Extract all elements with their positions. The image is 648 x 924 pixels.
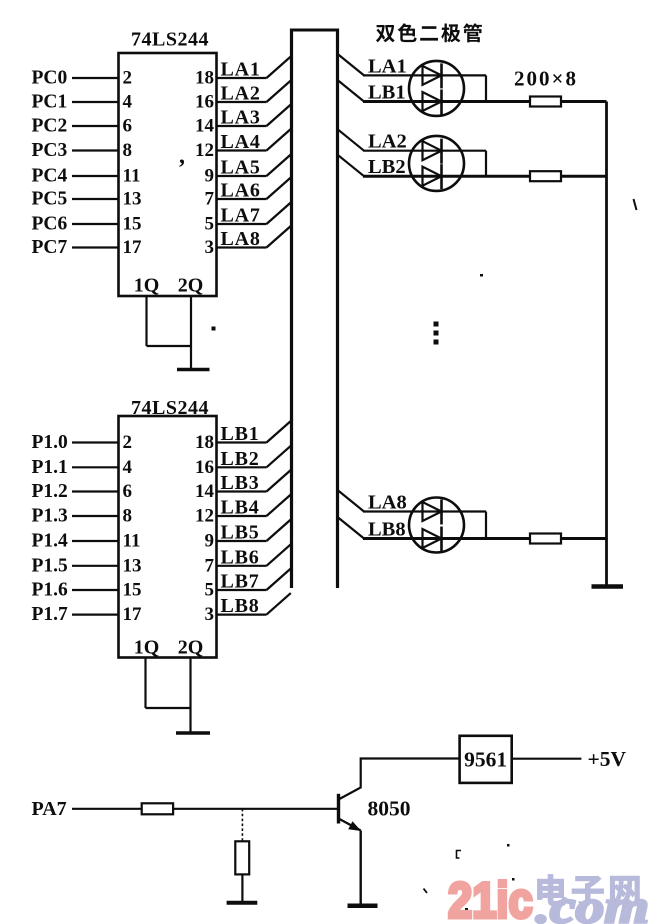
- svg-text:LA1: LA1: [221, 59, 261, 81]
- svg-text:LB8: LB8: [221, 595, 260, 617]
- svg-text:LA3: LA3: [221, 107, 261, 129]
- svg-text:14: 14: [195, 481, 215, 502]
- svg-text:5: 5: [205, 214, 215, 235]
- svg-text:LA2: LA2: [368, 131, 407, 153]
- svg-text:12: 12: [195, 506, 214, 527]
- svg-text:8: 8: [123, 506, 133, 527]
- svg-text:17: 17: [123, 237, 143, 258]
- svg-text:PC1: PC1: [32, 92, 68, 113]
- svg-text:2: 2: [123, 432, 133, 453]
- svg-text:,: ,: [179, 143, 185, 169]
- svg-text:LB7: LB7: [221, 571, 260, 593]
- svg-text:LB3: LB3: [221, 472, 260, 494]
- svg-text:18: 18: [195, 68, 214, 89]
- svg-text:P1.0: P1.0: [32, 432, 68, 453]
- svg-text:P1.5: P1.5: [32, 555, 69, 576]
- svg-text:5: 5: [205, 580, 215, 601]
- svg-text:LA8: LA8: [368, 492, 407, 514]
- svg-text:PC3: PC3: [32, 140, 68, 161]
- svg-text:PC0: PC0: [32, 68, 68, 89]
- svg-text:15: 15: [123, 214, 142, 235]
- svg-text:2Q: 2Q: [178, 637, 204, 659]
- svg-text:P1.6: P1.6: [32, 580, 69, 601]
- svg-text:3: 3: [205, 604, 215, 625]
- svg-text:LB1: LB1: [221, 423, 260, 445]
- svg-text:74LS244: 74LS244: [131, 397, 209, 419]
- svg-text:LB4: LB4: [221, 497, 260, 519]
- svg-text:1Q: 1Q: [134, 637, 160, 659]
- svg-text:12: 12: [195, 140, 214, 161]
- svg-text:16: 16: [195, 92, 214, 113]
- svg-text:2Q: 2Q: [178, 275, 204, 297]
- svg-text:200×8: 200×8: [514, 67, 578, 91]
- svg-text:P1.1: P1.1: [32, 457, 68, 478]
- svg-text:LA1: LA1: [368, 55, 407, 77]
- svg-text:8: 8: [123, 140, 133, 161]
- svg-text:7: 7: [205, 189, 215, 210]
- svg-text:1Q: 1Q: [134, 275, 160, 297]
- svg-text:LA5: LA5: [221, 157, 261, 179]
- svg-text:11: 11: [123, 166, 141, 187]
- svg-text:P1.4: P1.4: [32, 531, 69, 552]
- svg-text:PC5: PC5: [32, 189, 68, 210]
- svg-text:LB5: LB5: [221, 522, 260, 544]
- svg-text:LA6: LA6: [221, 180, 261, 202]
- svg-text:6: 6: [123, 116, 133, 137]
- svg-text:3: 3: [205, 237, 215, 258]
- svg-text:.com: .com: [536, 881, 648, 924]
- svg-text:P1.3: P1.3: [32, 506, 69, 527]
- svg-text:LB2: LB2: [368, 156, 406, 178]
- svg-text:6: 6: [123, 481, 133, 502]
- svg-text:LB8: LB8: [368, 519, 406, 541]
- svg-text:PA7: PA7: [32, 798, 67, 820]
- svg-text:13: 13: [123, 555, 142, 576]
- svg-text:LB2: LB2: [221, 448, 260, 470]
- svg-text:9561: 9561: [464, 748, 507, 772]
- svg-text:8050: 8050: [368, 797, 411, 821]
- svg-text:4: 4: [123, 457, 133, 478]
- svg-text:13: 13: [123, 189, 142, 210]
- svg-text:PC7: PC7: [32, 237, 68, 258]
- svg-text:P1.2: P1.2: [32, 481, 68, 502]
- svg-text:PC4: PC4: [32, 166, 68, 187]
- svg-text:9: 9: [205, 166, 215, 187]
- svg-text:2: 2: [123, 68, 133, 89]
- svg-text:LA8: LA8: [221, 228, 261, 250]
- svg-text:LA7: LA7: [221, 205, 261, 227]
- svg-text:21ic: 21ic: [448, 873, 533, 924]
- svg-text:PC2: PC2: [32, 116, 68, 137]
- svg-text:7: 7: [205, 555, 215, 576]
- svg-text:15: 15: [123, 580, 142, 601]
- svg-text:4: 4: [123, 92, 133, 113]
- svg-text:LB1: LB1: [368, 82, 406, 104]
- svg-text:9: 9: [205, 531, 215, 552]
- svg-text:74LS244: 74LS244: [131, 29, 209, 51]
- svg-text:LB6: LB6: [221, 546, 260, 568]
- svg-text:16: 16: [195, 457, 214, 478]
- svg-text:PC6: PC6: [32, 214, 68, 235]
- svg-text:LA2: LA2: [221, 83, 261, 105]
- svg-text:+5V: +5V: [588, 747, 627, 771]
- svg-text:17: 17: [123, 604, 143, 625]
- svg-text:11: 11: [123, 531, 141, 552]
- svg-text:14: 14: [195, 116, 215, 137]
- svg-text:P1.7: P1.7: [32, 604, 69, 625]
- svg-text:LA4: LA4: [221, 131, 261, 153]
- svg-text:18: 18: [195, 432, 214, 453]
